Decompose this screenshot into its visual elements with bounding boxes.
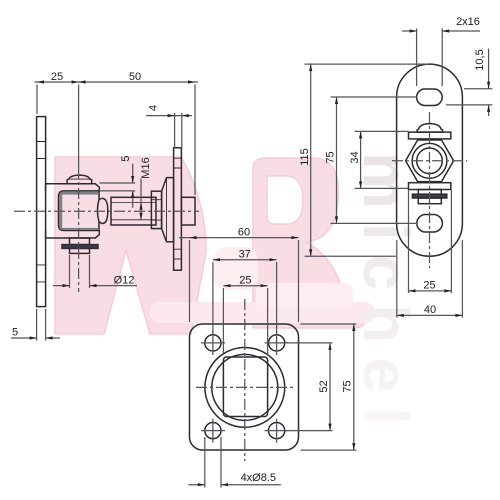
outer circle	[412, 143, 447, 178]
wall plate (obround plate edge view)	[37, 117, 46, 307]
svg-text:52: 52	[318, 380, 330, 392]
pin stub below	[70, 238, 90, 245]
arm band top	[409, 132, 451, 139]
25 dim line	[409, 290, 452, 292]
pin nut	[70, 248, 90, 253]
arrow 25 left	[37, 80, 44, 83]
115 dim line	[310, 64, 312, 256]
dome cap front	[417, 124, 442, 133]
ext lines 5	[37, 309, 46, 341]
inner circle	[417, 148, 443, 174]
52 dim line	[329, 343, 331, 431]
side view centerlines	[14, 168, 199, 292]
10,5 ext lines	[446, 89, 492, 105]
hinge body	[59, 191, 100, 231]
arrows 75	[335, 97, 338, 223]
arrows M16	[139, 203, 142, 220]
flange centerlines + hole ticks	[196, 299, 293, 461]
60 dim line	[179, 237, 299, 239]
arrows side view	[30, 80, 195, 339]
dim line 5 (plate thickness)	[11, 337, 60, 339]
side view dim texts	[12, 71, 160, 339]
big circle inner	[212, 354, 278, 420]
wall plate slot edge marks	[37, 142, 46, 282]
34 ext lines	[355, 131, 409, 188]
pin washer (dark)	[62, 245, 98, 249]
arrows 60	[190, 236, 299, 239]
svg-text:2x16: 2x16	[456, 16, 480, 28]
threaded rod	[111, 197, 156, 225]
arrows d12	[63, 284, 97, 287]
25 ext lines	[409, 190, 452, 293]
25 ext lines	[223, 288, 267, 355]
pin cap base line	[69, 178, 90, 180]
40 ext lines	[397, 240, 463, 318]
25 dim line	[223, 285, 267, 287]
arrows 115	[309, 64, 312, 256]
fixing plate stadium outline	[397, 64, 463, 256]
75 ext lines	[331, 97, 418, 223]
leader M16	[140, 178, 142, 219]
arm band bottom	[409, 183, 451, 190]
34 dim line	[360, 131, 362, 188]
right view dim texts	[299, 16, 486, 316]
bracket arm top	[46, 184, 100, 191]
svg-text:34: 34	[349, 151, 361, 163]
svg-text:M16: M16	[140, 157, 152, 178]
top slot	[417, 89, 443, 106]
52 ext lines	[285, 343, 332, 431]
washer front (dark)	[412, 194, 446, 198]
ext line left	[36, 85, 38, 115]
75 dim line	[353, 324, 355, 450]
4xd8.5 ext lines	[205, 437, 221, 488]
svg-text:40: 40	[424, 304, 436, 316]
arrows 5 arm	[131, 176, 134, 198]
dim line d12	[53, 285, 137, 287]
big circle outer	[205, 348, 285, 428]
letter M watermark	[55, 157, 206, 334]
2x16 ext lines	[417, 29, 443, 87]
corner hole BR	[269, 423, 285, 439]
watermark underline blob	[150, 302, 374, 323]
cone washer inner lines	[166, 178, 168, 242]
pin vertical centerline	[78, 168, 80, 292]
flange outline	[190, 324, 299, 450]
arrows 5 plate	[30, 336, 53, 339]
svg-text:75: 75	[325, 151, 337, 163]
dim 4 line	[146, 115, 192, 117]
svg-text:4xØ8.5: 4xØ8.5	[241, 472, 276, 484]
letter K/R watermark	[253, 158, 364, 328]
ext line rod end	[194, 85, 196, 196]
right view centerlines	[392, 112, 467, 268]
svg-text:4: 4	[148, 105, 160, 111]
nut facet lines	[151, 200, 161, 220]
hinge body shading	[59, 192, 98, 230]
svg-text:10,5: 10,5	[474, 49, 486, 70]
svg-text:5: 5	[120, 155, 132, 161]
svg-text:5: 5	[12, 327, 18, 339]
ext lines 4	[175, 113, 182, 148]
arrows 40	[397, 314, 463, 317]
svg-text:25: 25	[51, 71, 63, 83]
arrows 52	[328, 343, 331, 431]
leader 5	[132, 164, 134, 208]
arrow 50 right	[188, 80, 195, 83]
arrows 4 (outside)	[168, 114, 189, 117]
gate plate slot marks	[174, 158, 182, 259]
hexagon	[406, 140, 454, 182]
arrows 75	[352, 324, 355, 450]
bottom slot	[417, 215, 443, 233]
37 ext lines	[213, 262, 277, 334]
rod end stub	[181, 197, 195, 225]
60 ext lines	[190, 240, 299, 322]
flange dim texts	[238, 227, 354, 484]
10,5 leader	[488, 49, 490, 117]
arm ext lines for 5	[100, 183, 136, 191]
arrows 25	[223, 284, 267, 287]
pin cap	[67, 175, 92, 184]
arrows 2x16 outside	[410, 29, 450, 32]
thread crest lines	[111, 203, 156, 220]
watermark MK michel	[55, 152, 422, 439]
hex nut on rod	[151, 191, 161, 228]
corner hole TR	[269, 335, 285, 351]
svg-text:25: 25	[423, 280, 435, 292]
75 dim line	[336, 97, 338, 223]
gate plate edge view	[174, 148, 182, 270]
svg-text:115: 115	[299, 148, 311, 166]
svg-text:75: 75	[342, 380, 354, 392]
svg-text:50: 50	[129, 71, 141, 83]
ext lines d12	[70, 255, 90, 288]
arrows 25	[409, 289, 452, 292]
arrows 34	[359, 131, 362, 188]
nut front	[418, 198, 441, 204]
arrows 10,5	[487, 82, 490, 112]
right view arrows	[309, 29, 490, 317]
bracket arm bottom	[46, 231, 100, 239]
horizontal centerline	[14, 210, 199, 212]
svg-text:25: 25	[239, 275, 251, 287]
watermark side blob	[214, 247, 258, 290]
2x16 dim line	[402, 30, 480, 32]
115 ext lines	[305, 64, 429, 256]
40 dim line	[397, 314, 463, 316]
svg-text:60: 60	[238, 227, 250, 239]
corner hole TL	[205, 335, 221, 351]
corner hole BL	[205, 423, 221, 439]
ext line pin center	[78, 85, 80, 169]
arrows at pin center	[72, 80, 86, 83]
svg-text:michel: michel	[350, 152, 422, 439]
svg-text:37: 37	[239, 249, 251, 261]
square socket	[223, 357, 267, 417]
svg-text:Ø12: Ø12	[114, 275, 135, 287]
4xd8.5 dim line	[188, 484, 280, 486]
pin stub front	[418, 190, 441, 195]
75 ext lines	[301, 324, 357, 450]
dim line 25/50	[35, 81, 199, 83]
37 dim line	[213, 259, 277, 261]
cone washer	[162, 178, 174, 242]
arrows 37	[213, 258, 277, 261]
arrows 4xd8.5 outside	[198, 483, 228, 486]
flange arrows	[190, 236, 356, 486]
ball joint bump	[99, 198, 108, 223]
